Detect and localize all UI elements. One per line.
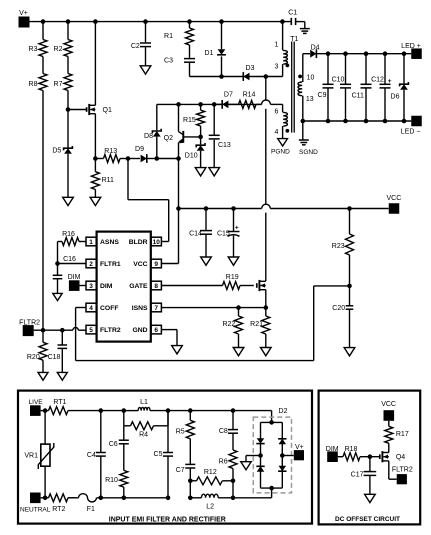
resistor R22 [222, 308, 242, 348]
junction C4 top [99, 408, 104, 413]
resistor R6 [219, 450, 237, 469]
wire C5 node to R5 node [168, 410, 190, 412]
ground below D10 [195, 168, 206, 176]
svg-text:C7: C7 [176, 467, 185, 474]
junction VR1 bottom [43, 496, 48, 501]
diode D2c upper-right [278, 439, 286, 444]
junction L2 left [188, 496, 193, 501]
junction R23/C20/COFF node [347, 284, 352, 289]
svg-text:2: 2 [89, 261, 93, 268]
diode D3 [243, 65, 282, 81]
node VCC pad (DC offset) [381, 401, 396, 421]
resistor R4 parallel branch [124, 411, 168, 439]
junction C9 bottom [326, 119, 331, 124]
T1 aux phase dot [286, 129, 290, 133]
junction C6/R4 top [122, 408, 127, 413]
chassis ground at C1 [300, 29, 310, 34]
svg-text:10: 10 [307, 74, 315, 81]
svg-text:FLTR2: FLTR2 [392, 467, 413, 474]
wire C8 node to bridge top [233, 411, 272, 423]
svg-text:INPUT EMI FILTER AND RECTIFIER: INPUT EMI FILTER AND RECTIFIER [109, 516, 226, 523]
ground PGND arrow [278, 139, 288, 146]
svg-text:ASNS: ASNS [100, 239, 119, 246]
wire F1 to R10 node [97, 497, 124, 499]
transistor Q3 (MOSFET) [257, 280, 266, 291]
ground at bridge [241, 462, 251, 470]
wire COFF left [76, 286, 350, 361]
U1 pin 7 box [151, 303, 161, 312]
U1 pin 3 box [86, 281, 96, 290]
T1 pin 3 label [275, 64, 279, 71]
junction C12 top [383, 51, 388, 56]
junction C5 bottom [166, 496, 171, 501]
diode D7 [214, 91, 238, 108]
junction top rail at R2 [66, 19, 71, 24]
junction C4 bottom [99, 496, 104, 501]
wire bridge left branch [260, 422, 262, 488]
wire SGND stem [302, 121, 304, 140]
resistor R1 [164, 22, 193, 45]
svg-text:C12: C12 [371, 76, 384, 83]
ground below C17 [365, 494, 376, 502]
node LED+ pad [401, 43, 422, 59]
junction C13 top [212, 102, 217, 107]
junction bridge top [269, 420, 274, 425]
svg-text:LED −: LED − [401, 128, 421, 135]
wire hop bias over Q3 drain [262, 100, 271, 104]
transformer T1 core [290, 36, 298, 133]
svg-text:C11: C11 [352, 93, 364, 100]
wire R12 node down [232, 481, 234, 498]
svg-text:L2: L2 [206, 504, 214, 511]
svg-text:R19: R19 [226, 274, 239, 281]
junction L2 right [231, 496, 236, 501]
T1 primary phase dot [286, 64, 290, 68]
wire top V+ rail [30, 21, 292, 23]
wire R16 left down to C16 node [57, 242, 59, 264]
wire D8 node to Q2 emitter line [157, 158, 179, 160]
svg-text:6: 6 [154, 327, 158, 334]
U1 pin 8 box [151, 281, 161, 290]
U1 pin name COFF [100, 305, 119, 312]
T1 pin 13 label [306, 96, 314, 103]
junction secondary bottom / SGND [301, 119, 306, 124]
junction D6 top [402, 51, 407, 56]
svg-text:Q2: Q2 [164, 135, 173, 142]
label SGND [299, 149, 318, 156]
svg-text:10: 10 [153, 239, 161, 246]
svg-text:R13: R13 [104, 148, 117, 155]
op-amp U1 controller body [97, 232, 151, 342]
U1 pin 2 box [86, 259, 96, 268]
capacitor C9 [318, 54, 334, 121]
junction Q2 emitter line [176, 156, 181, 161]
resistor R23 [332, 209, 354, 286]
DC offset box [319, 391, 421, 525]
wire C7 node down [189, 481, 191, 498]
wire bottom to C5 [124, 497, 168, 499]
junction FLTR2/R20 [41, 328, 46, 333]
svg-text:+: + [388, 78, 392, 85]
svg-text:D10: D10 [185, 152, 198, 159]
ground below GND pin [172, 346, 183, 354]
junction D9/D8 node [155, 156, 160, 161]
svg-text:D7: D7 [224, 91, 233, 98]
U1 pin name BLDR [129, 239, 148, 246]
junction C10 top [343, 51, 348, 56]
label INPUT EMI FILTER AND RECTIFIER [109, 516, 226, 523]
svg-text:D4: D4 [311, 44, 320, 51]
ground below C15 [228, 257, 239, 265]
fuse F1 [79, 494, 97, 514]
junction R10 bottom [122, 496, 127, 501]
node FLTR2 pad [19, 319, 40, 336]
resistor R14 [239, 92, 262, 109]
svg-text:R16: R16 [62, 231, 75, 238]
wire snubber bottom [190, 76, 244, 78]
U1 pin name VCC [133, 261, 147, 268]
wire Q2 emitter to VCC rail [178, 159, 180, 209]
ground below D5 [63, 197, 74, 205]
svg-text:R23: R23 [332, 243, 345, 250]
T1 secondary winding pin10-pin13 [298, 54, 303, 121]
svg-text:9: 9 [154, 261, 158, 268]
node DIM pad [68, 274, 81, 291]
capacitor C6 [109, 426, 129, 471]
ground below C14 [201, 257, 212, 265]
wire hop FLTR2 over COFF [73, 328, 78, 331]
junction VR1 top [43, 408, 48, 413]
resistor R18 [338, 446, 370, 461]
svg-text:D9: D9 [135, 146, 144, 153]
capacitor C10 [332, 54, 351, 121]
capacitor C8 [219, 411, 238, 450]
node NEUTRAL pad [20, 493, 51, 514]
svg-text:GATE: GATE [129, 283, 148, 290]
svg-text:NEUTRAL: NEUTRAL [20, 507, 51, 514]
diode D9 [128, 146, 157, 163]
svg-text:C6: C6 [109, 441, 118, 448]
svg-text:3: 3 [89, 283, 93, 290]
svg-text:5: 5 [89, 327, 93, 334]
capacitor C16 [53, 264, 63, 294]
svg-text:GND: GND [132, 327, 147, 334]
wire R5 node to C8 node [190, 410, 233, 412]
svg-text:LIVE: LIVE [29, 399, 44, 406]
capacitor C2 [131, 22, 151, 66]
resistor R17 [385, 421, 409, 453]
diode D2b lower-left [256, 466, 264, 471]
bridge rectifier D2 dashed box [253, 408, 291, 493]
svg-text:LED +: LED + [401, 43, 421, 50]
junction L1/C5 node [166, 408, 171, 413]
T1 pin 4 label [275, 129, 279, 136]
wire ISNS line [161, 307, 265, 309]
resistor R16 [58, 231, 87, 245]
svg-text:C5: C5 [154, 451, 163, 458]
capacitor C4 [87, 411, 106, 498]
junction R15 top [198, 102, 203, 107]
svg-text:R22: R22 [222, 321, 235, 328]
node V+ input pad [19, 10, 30, 28]
resistor R10 [105, 470, 128, 497]
resistor R5 [176, 411, 195, 439]
svg-text:R11: R11 [102, 177, 114, 184]
node VCC pad [387, 195, 402, 214]
svg-text:1: 1 [275, 42, 279, 49]
junction R15 bottom [198, 135, 203, 140]
label D10 [185, 152, 198, 159]
junction Q3 drain / primary node [264, 74, 269, 79]
capacitor C17 [351, 457, 377, 495]
resistor R8 [29, 57, 47, 91]
capacitor C18 [48, 330, 68, 372]
junction VCC rail left [176, 206, 181, 211]
svg-text:FLTR2: FLTR2 [100, 327, 121, 334]
label C16 [63, 256, 76, 263]
svg-text:C1: C1 [288, 10, 297, 17]
resistor R15 [183, 104, 205, 136]
svg-text:4: 4 [275, 129, 279, 136]
svg-text:C10: C10 [332, 76, 345, 83]
wire bottom to bridge [233, 488, 272, 498]
node DIM pad (DC offset) [326, 446, 339, 462]
svg-text:DIM: DIM [326, 446, 339, 453]
svg-text:R1: R1 [164, 33, 173, 40]
wire GATE line [161, 285, 222, 287]
svg-text:C13: C13 [218, 142, 231, 149]
svg-text:R7: R7 [54, 81, 63, 88]
node V+ pad (bridge output) [294, 444, 304, 460]
U1 pin 9 box [151, 259, 161, 268]
svg-text:8: 8 [154, 283, 158, 290]
junction C16 node [55, 261, 60, 266]
svg-text:V+: V+ [19, 10, 28, 17]
junction D1 bottom [219, 74, 224, 79]
svg-text:+: + [235, 225, 239, 232]
diode D2d lower-right [278, 466, 286, 471]
capacitor C11 [352, 54, 372, 121]
svg-text:R18: R18 [345, 446, 358, 453]
resistor R11 [91, 159, 114, 198]
svg-text:SGND: SGND [299, 149, 318, 156]
junction D6 bottom [402, 119, 407, 124]
wire bridge bottom bar [261, 487, 283, 489]
wire R6 to R12 node [232, 469, 234, 481]
U1 pin 10 box [151, 237, 161, 246]
svg-text:R14: R14 [243, 92, 256, 99]
svg-text:3: 3 [275, 64, 279, 71]
svg-text:F1: F1 [87, 506, 95, 513]
wire FLTR2 line [34, 329, 86, 331]
U1 pin 6 box [151, 325, 161, 334]
junction R6/R12 node [231, 479, 236, 484]
wire LED+ rail [316, 53, 411, 55]
wire Q4 source to FLTR2 [389, 461, 397, 479]
svg-text:VCC: VCC [387, 195, 402, 202]
wire Q1 source down [94, 114, 96, 159]
svg-text:7: 7 [154, 305, 158, 312]
U1 pin name GND [132, 327, 147, 334]
ground below C16 [53, 293, 62, 300]
junction C10 bottom [343, 119, 348, 124]
wire R7 to Q1 gate junction [67, 91, 69, 110]
node FLTR2 pad (DC offset) [392, 467, 413, 485]
svg-text:VCC: VCC [133, 261, 147, 268]
T1 secondary phase dot [298, 75, 302, 79]
svg-text:DIM: DIM [68, 274, 81, 281]
U1 pin name GATE [129, 283, 148, 290]
U1 pin 5 box [86, 325, 96, 334]
junction C11 bottom [364, 119, 369, 124]
svg-text:D6: D6 [391, 94, 400, 101]
wire bias rail [157, 103, 283, 105]
svg-text:C4: C4 [87, 452, 96, 459]
wire LIVE to RT1 [41, 410, 49, 412]
diode D4 [303, 44, 320, 58]
ground below C18 [57, 372, 67, 380]
varistor VR1 [24, 411, 53, 498]
EMI filter box [18, 391, 312, 524]
junction R5 top [188, 408, 193, 413]
U1 pin name DIM [100, 283, 113, 290]
capacitor C7 [176, 439, 196, 481]
wire BLDR path [128, 159, 169, 242]
svg-text:DIM: DIM [100, 283, 113, 290]
node LIVE pad [29, 399, 44, 416]
svg-text:R17: R17 [396, 431, 409, 438]
wire LED- rail [303, 120, 411, 122]
ground below R21 [261, 348, 272, 356]
svg-text:Q1: Q1 [103, 107, 112, 114]
svg-text:VR1: VR1 [24, 453, 38, 460]
svg-text:C16: C16 [63, 256, 76, 263]
svg-text:T1: T1 [290, 36, 298, 43]
capacitor C15 (electrolytic) [217, 209, 240, 258]
U1 pin 1 box [86, 237, 96, 246]
svg-text:L1: L1 [140, 399, 148, 406]
svg-text:R6: R6 [219, 458, 228, 465]
wire GND pin path [161, 330, 177, 346]
capacitor C5 [154, 411, 173, 498]
capacitor C14 [189, 209, 212, 258]
svg-text:V+: V+ [295, 444, 304, 451]
svg-text:R8: R8 [29, 81, 38, 88]
svg-text:C2: C2 [131, 43, 140, 50]
svg-text:VCC: VCC [381, 401, 396, 408]
svg-text:6: 6 [275, 109, 279, 116]
svg-text:BLDR: BLDR [129, 239, 148, 246]
transistor Q2 (NPN) [164, 104, 201, 158]
wire DIM pad to pin 3 [80, 285, 87, 287]
node LED- pad [401, 116, 422, 136]
ground below C2 [140, 66, 151, 74]
svg-text:DC OFFSET CIRCUIT: DC OFFSET CIRCUIT [335, 516, 400, 523]
U1 pin name FLTR2 [100, 327, 121, 334]
T1 aux winding pin6-pin4 [283, 104, 288, 138]
junction top rail at C2 [143, 19, 148, 24]
junction bridge right tap [280, 453, 285, 458]
wire Q3 source down [265, 290, 267, 308]
junction C14 top [204, 206, 209, 211]
junction R22 top [236, 305, 241, 310]
wire C6 node to L1 [124, 410, 138, 412]
junction R21/Q3 source [264, 305, 269, 310]
zener diode D10 [196, 137, 205, 168]
svg-text:1: 1 [89, 239, 93, 246]
T1 pin 1 label [275, 42, 279, 49]
junction C9 top [326, 51, 331, 56]
junction C11 top [364, 51, 369, 56]
junction bridge bottom [269, 486, 274, 491]
svg-text:C15: C15 [217, 230, 230, 237]
svg-text:D5: D5 [52, 148, 61, 155]
svg-text:C17: C17 [351, 472, 364, 479]
junction top rail at R3 [41, 19, 46, 24]
svg-text:Q4: Q4 [396, 454, 405, 461]
wire bridge top bar [261, 421, 283, 423]
ground below R20 [38, 372, 48, 380]
junction Q1 gate node [66, 107, 71, 112]
resistor R19 [223, 274, 254, 290]
junction Q1 source node [93, 156, 98, 161]
junction R23 top [347, 206, 352, 211]
ground below R22 [233, 348, 244, 356]
diode D2a upper-left [256, 438, 264, 443]
wire Q1 drain to top rail [94, 22, 96, 106]
wire bridge left tap to ground [246, 456, 261, 462]
wire hop VCC over Q3 drain [262, 204, 271, 208]
resistor RT1 [49, 399, 101, 415]
junction bridge left tap [258, 453, 263, 458]
junction top rail at R1 [187, 19, 192, 24]
ground below R11 [90, 197, 101, 205]
transistor Q1 (MOSFET) [87, 104, 112, 115]
label PGND [271, 148, 290, 155]
resistor R21 [250, 308, 270, 348]
capacitor C12 [371, 54, 392, 121]
svg-text:C14: C14 [189, 230, 202, 237]
svg-text:D3: D3 [246, 65, 255, 72]
junction top rail at Q1 drain [93, 19, 98, 24]
resistor R7 [54, 57, 72, 91]
svg-text:D1: D1 [205, 50, 214, 57]
wire gate node to Q4 [370, 456, 380, 458]
wire VCC pin path [161, 209, 178, 264]
svg-text:PGND: PGND [271, 148, 290, 155]
wire gate node to Q1 [68, 109, 87, 111]
junction top rail at D1 [219, 19, 224, 24]
svg-text:R5: R5 [176, 429, 185, 436]
wire L1 to C5 node [150, 410, 168, 412]
svg-text:R10: R10 [105, 477, 118, 484]
resistor R2 [54, 22, 72, 57]
junction FLTR2/C18 [60, 328, 65, 333]
junction Q2 collector [176, 102, 181, 107]
wire bridge right branch [281, 422, 283, 488]
ground below C20 [344, 348, 355, 356]
capacitor C3 [164, 45, 195, 77]
svg-text:RT2: RT2 [52, 506, 65, 513]
svg-text:C8: C8 [219, 428, 228, 435]
U1 pin name ISNS [132, 305, 148, 312]
T1 primary winding pin1-pin3 [283, 22, 288, 77]
zener diode D6 [391, 54, 409, 121]
ground below C13 [209, 168, 220, 176]
junction top rail at T1/C1 [280, 19, 285, 24]
T1 pin 6 label [275, 109, 279, 116]
svg-text:COFF: COFF [100, 305, 119, 312]
